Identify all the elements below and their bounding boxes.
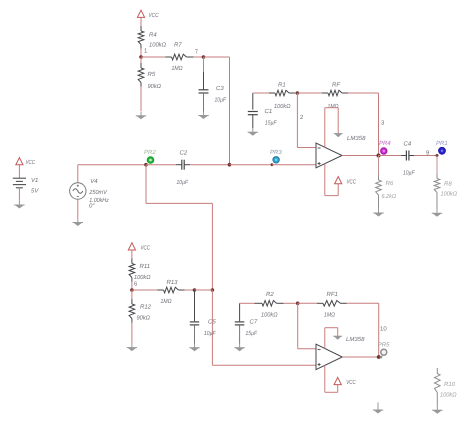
wire PR2 node down — [145, 165, 147, 204]
svg-text:LM358: LM358 — [346, 336, 365, 343]
junction output node — [377, 154, 381, 158]
svg-text:0°: 0° — [89, 202, 95, 209]
wire R13 to C5 junction — [179, 289, 195, 291]
resistor R1 — [275, 90, 289, 96]
svg-text:PR5: PR5 — [378, 341, 390, 348]
probe PR1 attach dot — [436, 154, 439, 157]
op-amp U2 V- hook wire — [325, 328, 338, 349]
wire R2 to node junction — [277, 302, 298, 304]
ground below R8 — [436, 209, 438, 213]
junction node 7 — [202, 55, 206, 59]
wire output to C4 — [379, 155, 407, 157]
wire to op-amp U2 minus — [298, 348, 316, 350]
resistor R8 — [434, 156, 440, 210]
svg-text:250mV: 250mV — [88, 189, 107, 196]
svg-text:R5: R5 — [148, 71, 156, 78]
wire U1 output to node 3 junction — [342, 155, 379, 157]
svg-text:C3: C3 — [216, 85, 224, 92]
junction R2/RF1 — [296, 302, 300, 306]
svg-text:15µF: 15µF — [265, 120, 277, 127]
ground below R10 — [436, 406, 438, 410]
resistor R12 — [129, 290, 135, 343]
power VCC symbol (V1) — [16, 158, 23, 165]
svg-text:10µF: 10µF — [215, 97, 227, 104]
probe PR4 — [381, 148, 387, 154]
junction node 6 — [130, 288, 134, 292]
svg-text:R10: R10 — [444, 381, 456, 388]
svg-text:10µF: 10µF — [177, 179, 189, 186]
svg-text:1MΩ: 1MΩ — [161, 298, 172, 305]
capacitor C1 — [248, 93, 258, 128]
op-amp U1 V- hook wire — [325, 108, 338, 148]
wire main to op-amp U2 plus — [212, 364, 316, 366]
svg-text:VCC: VCC — [26, 159, 36, 166]
wire junction down — [297, 303, 299, 349]
svg-text:RF: RF — [332, 82, 340, 89]
capacitor C3 — [199, 57, 209, 112]
svg-text:1MΩ: 1MΩ — [324, 312, 335, 319]
svg-text:15µF: 15µF — [246, 330, 258, 337]
svg-text:R1: R1 — [278, 82, 286, 89]
svg-text:V1: V1 — [31, 177, 38, 184]
power VCC symbol U1 — [335, 177, 342, 184]
svg-text:VCC: VCC — [149, 12, 160, 19]
probe PR5 attach dot — [380, 356, 383, 359]
ground below C1 — [252, 128, 254, 132]
junction node 2 — [296, 91, 300, 95]
svg-text:RF1: RF1 — [327, 291, 338, 298]
svg-text:PR4: PR4 — [379, 140, 391, 147]
wire node10 down to output — [378, 303, 380, 357]
resistor R6 — [376, 156, 382, 209]
probe PR3 attach dot — [271, 163, 274, 166]
svg-text:V4: V4 — [90, 178, 98, 185]
resistor R2 — [262, 301, 277, 307]
svg-text:R8: R8 — [444, 181, 452, 188]
svg-text:10µF: 10µF — [403, 170, 415, 177]
op-amp U2 — [316, 344, 342, 369]
wire R1 to node 2 — [289, 92, 297, 94]
svg-text:5V: 5V — [31, 188, 39, 195]
wire bend junction to PR3 — [230, 164, 273, 166]
power VCC symbol U2 — [334, 377, 341, 384]
svg-text:1MΩ: 1MΩ — [328, 103, 339, 110]
svg-text:90kΩ: 90kΩ — [148, 83, 162, 90]
probe PR5 — [381, 349, 387, 355]
capacitor C5 — [190, 290, 199, 344]
source V4 — [70, 183, 86, 199]
svg-text:6.2kΩ: 6.2kΩ — [382, 193, 397, 200]
wire main vertical down — [211, 203, 213, 290]
ground below C7 — [239, 344, 241, 348]
capacitor C7 — [235, 303, 245, 343]
power VCC symbol (top, for R4) — [137, 10, 144, 26]
wire node6 to R13 — [132, 289, 164, 291]
svg-text:C5: C5 — [208, 319, 216, 326]
svg-text:R6: R6 — [386, 180, 394, 187]
wire RF1 to node 10 — [341, 302, 379, 304]
op-amp U2 V- arrow — [333, 335, 342, 337]
ground below V4 — [77, 218, 79, 222]
wire C7 to R2 — [240, 302, 262, 304]
ground below R6 — [378, 209, 380, 213]
svg-text:R11: R11 — [140, 263, 151, 270]
svg-text:VCC: VCC — [141, 245, 151, 252]
svg-text:100kΩ: 100kΩ — [440, 392, 457, 399]
ground below R5 — [140, 112, 142, 116]
svg-text:VCC: VCC — [347, 179, 357, 186]
svg-text:C4: C4 — [404, 141, 412, 148]
battery V1 — [13, 165, 26, 201]
wire junction to RF1 — [298, 302, 323, 304]
wire node2 to RF — [297, 92, 328, 94]
wire node7 to bend — [204, 56, 230, 58]
stray ground — [373, 403, 383, 414]
resistor R4 — [138, 26, 144, 57]
junction main/R13 row — [211, 288, 215, 292]
probe PR3 — [273, 157, 279, 163]
svg-text:R4: R4 — [149, 31, 157, 38]
resistor R13 — [164, 287, 179, 293]
wire RF to node 3 — [342, 92, 379, 94]
svg-text:C2: C2 — [180, 150, 188, 157]
wire node1 to R7 — [141, 56, 172, 58]
op-amp U1 V- arrow — [334, 133, 343, 135]
op-amp U1 VCC hook wire — [325, 164, 338, 196]
wire node2 to op-amp minus — [297, 147, 316, 149]
svg-text:90kΩ: 90kΩ — [137, 315, 151, 322]
wire C5 junction to main — [195, 289, 213, 291]
wire PR3 to op-amp U1 plus input — [272, 164, 316, 166]
resistor RF — [328, 90, 342, 96]
svg-text:LM358: LM358 — [347, 135, 366, 142]
ground below C3 — [203, 111, 205, 115]
svg-text:100kΩ: 100kΩ — [134, 274, 151, 281]
wire PR2 to C2 — [146, 164, 182, 166]
wire U2 output — [342, 356, 381, 358]
svg-text:PR2: PR2 — [144, 149, 156, 156]
svg-text:PR3: PR3 — [270, 149, 282, 156]
svg-text:VCC: VCC — [346, 379, 356, 386]
resistor RF1 — [323, 301, 341, 307]
wire main vertical down 2 — [211, 290, 213, 365]
svg-text:C1: C1 — [265, 108, 273, 115]
ground below R12 — [131, 343, 133, 347]
svg-text:10: 10 — [380, 326, 387, 333]
wire node3 down to output — [378, 93, 380, 156]
svg-text:100kΩ: 100kΩ — [274, 103, 291, 110]
probe PR2 — [147, 157, 154, 164]
svg-text:100kΩ: 100kΩ — [261, 312, 278, 319]
resistor R5 — [138, 57, 144, 111]
svg-text:R12: R12 — [140, 304, 152, 311]
op-amp U1 — [316, 143, 342, 168]
wire V4 to signal row — [78, 165, 146, 183]
wire C2 to bend junction — [184, 164, 229, 166]
svg-text:R13: R13 — [167, 279, 179, 286]
svg-text:100kΩ: 100kΩ — [149, 41, 166, 48]
svg-text:R2: R2 — [266, 291, 274, 298]
resistor R7 — [172, 54, 187, 60]
svg-text:10µF: 10µF — [204, 330, 216, 337]
ground below C5 — [194, 344, 196, 348]
wire across to main vertical — [146, 202, 212, 204]
wire R7 to node 7 — [187, 56, 204, 58]
wire V4 to ground — [77, 199, 79, 218]
probe PR1 — [439, 147, 446, 154]
ground below V1 — [18, 201, 20, 205]
wire C4 to corner — [409, 155, 437, 157]
junction signal/bend — [228, 163, 232, 167]
power VCC symbol (R11) — [128, 243, 135, 259]
junction output 2 — [377, 355, 381, 359]
svg-text:1MΩ: 1MΩ — [172, 65, 183, 72]
wire node2 down — [296, 93, 298, 148]
junction node 1 — [139, 55, 143, 59]
svg-text:PR1: PR1 — [436, 140, 448, 147]
junction at PR2 — [144, 163, 148, 167]
capacitor C2 — [181, 160, 183, 170]
svg-text:R7: R7 — [174, 42, 182, 49]
op-amp U2 VCC hook wire — [325, 365, 338, 392]
resistor R11 — [129, 259, 135, 291]
svg-text:100kΩ: 100kΩ — [441, 191, 458, 198]
capacitor C4 — [405, 151, 407, 161]
resistor R10 — [435, 368, 441, 406]
wire C1 to R1 — [253, 92, 275, 94]
junction C5 tap — [193, 288, 197, 292]
wire bend down to signal row — [229, 57, 231, 165]
svg-text:C7: C7 — [250, 319, 258, 326]
